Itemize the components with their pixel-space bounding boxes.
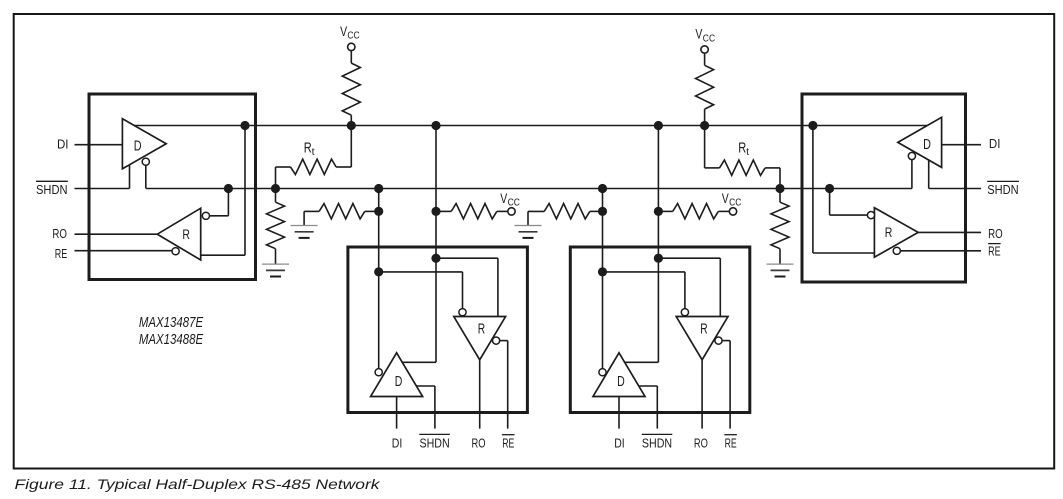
svg-text:t: t xyxy=(312,146,315,158)
svg-text:CC: CC xyxy=(703,32,716,44)
svg-text:D: D xyxy=(923,136,931,153)
svg-text:t: t xyxy=(746,146,749,158)
svg-text:RO: RO xyxy=(694,435,708,450)
svg-text:R: R xyxy=(700,321,707,337)
svg-text:RE: RE xyxy=(55,246,68,261)
svg-text:RE: RE xyxy=(725,435,737,450)
svg-text:MAX13487E: MAX13487E xyxy=(139,315,203,331)
svg-text:V: V xyxy=(695,26,702,42)
svg-text:SHDN: SHDN xyxy=(420,435,450,450)
svg-text:SHDN: SHDN xyxy=(642,435,672,450)
svg-text:SHDN: SHDN xyxy=(987,182,1018,197)
svg-text:RO: RO xyxy=(988,226,1003,241)
svg-text:DI: DI xyxy=(989,136,1001,151)
svg-text:R: R xyxy=(738,141,746,157)
svg-text:DI: DI xyxy=(392,435,403,450)
svg-text:CC: CC xyxy=(347,30,360,42)
svg-text:CC: CC xyxy=(508,197,521,209)
svg-text:D: D xyxy=(134,138,142,155)
svg-text:Figure 11. Typical Half-Duplex: Figure 11. Typical Half-Duplex RS-485 Ne… xyxy=(15,476,381,492)
svg-text:DI: DI xyxy=(614,435,625,450)
svg-text:R: R xyxy=(304,141,312,157)
svg-text:D: D xyxy=(617,374,625,390)
svg-text:RE: RE xyxy=(988,244,1001,259)
svg-text:R: R xyxy=(478,321,485,337)
svg-text:SHDN: SHDN xyxy=(36,182,68,197)
svg-text:DI: DI xyxy=(57,137,69,152)
svg-text:RE: RE xyxy=(502,435,514,450)
svg-text:RO: RO xyxy=(472,435,486,450)
svg-text:D: D xyxy=(395,374,403,390)
svg-text:MAX13488E: MAX13488E xyxy=(139,332,203,348)
svg-text:CC: CC xyxy=(729,197,742,209)
svg-text:R: R xyxy=(182,226,190,242)
svg-text:RO: RO xyxy=(52,226,67,241)
svg-text:R: R xyxy=(885,224,893,240)
